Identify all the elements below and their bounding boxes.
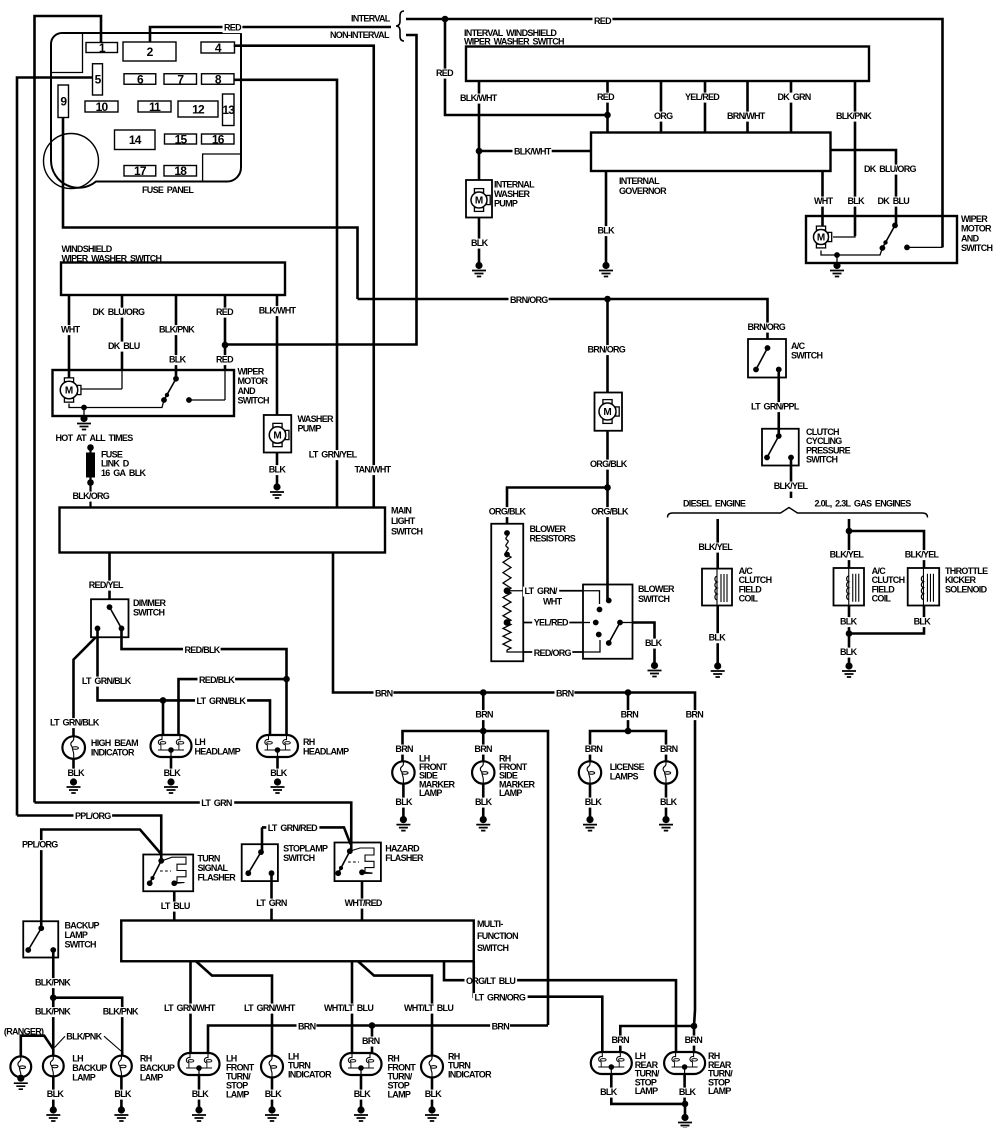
svg-text:BLK: BLK — [679, 1087, 697, 1097]
label YEL/RED tap — [532, 618, 569, 628]
svg-text:BRN: BRN — [362, 1036, 380, 1046]
label BLK/WHT — [459, 94, 498, 104]
label LT BLU — [159, 902, 191, 912]
ground LH front lamp — [195, 1106, 202, 1113]
ground diesel coil — [714, 662, 721, 669]
svg-text:DIMMER: DIMMER — [133, 598, 166, 608]
thin link RED to contact — [189, 399, 225, 401]
svg-text:BRN: BRN — [298, 1022, 316, 1032]
label RED/BLK lower — [198, 676, 236, 686]
wire BLK/PNK drop — [175, 295, 178, 379]
label BRN license right — [659, 745, 679, 755]
svg-text:LT GRN: LT GRN — [201, 798, 232, 808]
label ORG/BLK — [589, 460, 628, 470]
junction dot motor ground — [81, 405, 87, 411]
wire RED/BLK from dimmer — [122, 628, 287, 737]
svg-text:LAMP: LAMP — [635, 1086, 658, 1096]
turn signal flasher heater element — [160, 870, 171, 872]
svg-text:LIGHT: LIGHT — [391, 516, 416, 526]
svg-text:WHT/LT BLU: WHT/LT BLU — [324, 1003, 373, 1013]
wire BLK/YEL to engines brace — [790, 458, 793, 499]
blower resistor element — [504, 530, 510, 536]
svg-text:BRN: BRN — [395, 744, 413, 754]
svg-text:MAIN: MAIN — [391, 506, 411, 516]
wire marker tee — [403, 731, 549, 1025]
fuse 14 — [115, 130, 156, 150]
junction dot license tee — [625, 728, 632, 735]
svg-text:PPL/ORG: PPL/ORG — [22, 840, 58, 850]
junction dot marker tee — [480, 728, 487, 735]
label WHT — [813, 197, 835, 207]
fuse 11 — [138, 101, 171, 112]
ground ranger lamp — [17, 1075, 24, 1082]
svg-text:LT GRN/WHT: LT GRN/WHT — [244, 1003, 296, 1013]
svg-text:LT GRN/BLK: LT GRN/BLK — [82, 676, 132, 686]
wire LT GRN/RED feed — [261, 827, 264, 852]
ground blower switch — [651, 662, 658, 669]
junction dot RED/BLK — [283, 676, 290, 683]
svg-text:16 GA BLK: 16 GA BLK — [101, 468, 147, 478]
blower switch box — [583, 585, 633, 659]
fuse 9 — [58, 85, 69, 118]
label BLK gas ground lead — [839, 648, 858, 658]
wire BRN from main light switch — [333, 553, 695, 1027]
wire LT GRN/WHT to LH front turn lamp — [189, 961, 192, 1053]
wire LT GRN/ORG to LH rear lamp — [474, 961, 603, 1056]
svg-text:BRN/ORG: BRN/ORG — [510, 295, 548, 305]
svg-text:RED: RED — [597, 92, 615, 102]
label BRN RH marker — [473, 745, 493, 755]
label LT GRN/ORG — [473, 993, 528, 1003]
svg-text:BLK/YEL: BLK/YEL — [698, 542, 733, 552]
label BRN right drop — [684, 710, 704, 720]
svg-text:YEL/RED: YEL/RED — [685, 92, 720, 102]
svg-text:BLK: BLK — [709, 633, 727, 643]
wiper motor (left) — [64, 378, 73, 382]
fuse 16 — [202, 134, 235, 144]
A/C clutch field coil (gas) — [834, 568, 865, 606]
fuse 4 — [201, 42, 235, 53]
label PPL/ORG branch — [21, 840, 60, 850]
ground license right — [662, 816, 669, 823]
wire governor to DK BLU/ORG — [831, 150, 897, 216]
fuse 6 — [124, 74, 156, 85]
label BLK/PNK 3 — [101, 1007, 139, 1017]
svg-text:RED: RED — [436, 68, 454, 78]
svg-text:M: M — [273, 431, 281, 442]
svg-text:BLK/YEL: BLK/YEL — [830, 550, 865, 560]
wire WHT/LT BLU to RH turn indicator — [358, 961, 432, 1056]
wire BRN rear tee — [620, 1026, 694, 1056]
svg-text:RED/ORG: RED/ORG — [534, 648, 572, 658]
svg-text:BLK: BLK — [270, 768, 288, 778]
svg-text:BRN: BRN — [475, 710, 493, 720]
wire fuse 9 to BRN/ORG run — [63, 118, 358, 300]
label BLK diesel — [707, 633, 726, 643]
wire BLK washer pump ground lead — [478, 218, 481, 265]
wire BLK/PNK to RH backup — [53, 998, 122, 1056]
svg-text:BLK/ORG: BLK/ORG — [73, 491, 110, 501]
label BRN LH marker — [394, 745, 414, 755]
svg-text:M: M — [475, 196, 483, 207]
svg-text:BLK: BLK — [68, 768, 86, 778]
main light switch box — [60, 508, 386, 553]
ground RH front lamp — [357, 1106, 364, 1113]
svg-text:LT BLU: LT BLU — [161, 901, 190, 911]
ground RH headlamp — [274, 778, 281, 785]
svg-text:HAZARD: HAZARD — [385, 844, 420, 854]
svg-text:SWITCH: SWITCH — [791, 351, 822, 361]
svg-text:BLK: BLK — [475, 797, 493, 807]
svg-text:BRN: BRN — [686, 710, 704, 720]
svg-text:BLK: BLK — [600, 1087, 618, 1097]
svg-text:DK GRN: DK GRN — [778, 92, 811, 102]
svg-text:PUMP: PUMP — [494, 199, 518, 209]
ground LH backup — [50, 1106, 57, 1113]
svg-text:BLK: BLK — [395, 797, 413, 807]
wire BLK high beam — [72, 759, 75, 781]
svg-text:RED: RED — [216, 307, 234, 317]
label DK GRN — [776, 93, 812, 103]
ground high beam — [70, 778, 77, 785]
hazard flasher heater element — [348, 861, 359, 863]
thin link arm to ground bus — [69, 400, 164, 408]
svg-text:INDICATOR: INDICATOR — [288, 1070, 332, 1080]
svg-text:BRN: BRN — [556, 689, 574, 699]
junction dot BRN front — [369, 1022, 376, 1029]
fuse 8 — [202, 74, 235, 85]
wire BRN rear right drop — [693, 1026, 696, 1056]
label BRN/ORG ac switch — [746, 323, 786, 333]
label BLK LH headlamp — [162, 769, 181, 779]
label BLK LH marker — [394, 798, 413, 808]
wire WHT governor to wiper motor — [821, 171, 824, 228]
wire INTERVAL feed — [406, 19, 943, 247]
svg-text:SWITCH: SWITCH — [65, 940, 96, 950]
svg-text:16: 16 — [212, 132, 225, 146]
wire ORG/BLK below blower motor — [606, 431, 609, 601]
svg-text:SWITCH: SWITCH — [961, 243, 992, 253]
wire BLK diesel coil ground — [716, 606, 719, 665]
fuse 7 — [164, 74, 197, 85]
wire license tee — [590, 731, 666, 761]
svg-text:HEADLAMP: HEADLAMP — [303, 747, 349, 757]
wire fuse 1 to LT GRN left drop — [35, 16, 102, 803]
svg-text:BLK: BLK — [169, 355, 187, 365]
svg-text:INTERNAL: INTERNAL — [494, 180, 535, 190]
svg-text:WHT: WHT — [543, 597, 563, 607]
svg-text:LAMP: LAMP — [72, 1072, 95, 1082]
svg-text:MULTI-: MULTI- — [477, 919, 503, 929]
ground LH turn indicator — [268, 1106, 275, 1113]
label BRN LH rear — [610, 1036, 630, 1046]
svg-text:INDICATOR: INDICATOR — [91, 748, 135, 758]
svg-text:BRN/ORG: BRN/ORG — [588, 345, 626, 355]
svg-text:BLK: BLK — [598, 226, 616, 236]
label RED upper — [215, 308, 235, 318]
label BLK license right — [659, 798, 678, 808]
label BLK RH rear — [677, 1088, 696, 1098]
labels LT GRN/YEL TAN/WHT — [307, 450, 359, 460]
svg-text:BLK: BLK — [660, 797, 678, 807]
ground gas coils — [845, 662, 852, 669]
label DK BLU — [107, 342, 141, 352]
label LT GRN/WHT 2 — [243, 1004, 298, 1014]
wire gas BLK/YEL feeds — [848, 519, 851, 568]
ground license left — [586, 816, 593, 823]
svg-text:RED: RED — [216, 355, 234, 365]
svg-text:BLK: BLK — [164, 768, 182, 778]
svg-text:SWITCH: SWITCH — [133, 608, 164, 618]
svg-text:BRN: BRN — [660, 744, 678, 754]
label BLK/ORG — [71, 492, 110, 502]
wire RED drop — [224, 295, 227, 370]
label PPL/ORG on feed — [74, 812, 113, 822]
LH headlamp — [151, 735, 192, 757]
svg-text:BLK: BLK — [265, 1089, 283, 1099]
label BLK/WHT on tee wire — [513, 147, 552, 157]
wire LT GRN/BLK to high beam indicator — [74, 637, 96, 737]
junction dot BLK/WHT tee — [476, 148, 483, 155]
fuse panel corner notch — [51, 33, 83, 73]
wire WHT/RED — [361, 881, 364, 920]
junction dot rear ground — [682, 1101, 689, 1108]
svg-text:TURN: TURN — [198, 854, 220, 864]
hazard flasher box — [335, 843, 381, 882]
wire BLK kicker to junction — [849, 606, 924, 634]
svg-text:BLK/PNK: BLK/PNK — [159, 325, 195, 335]
ground RH marker — [480, 816, 487, 823]
junction dot interval/red — [442, 16, 449, 23]
svg-text:LT GRN/BLK: LT GRN/BLK — [197, 696, 247, 706]
LH front turn/stop lamp — [179, 1053, 220, 1075]
svg-text:BLK: BLK — [585, 797, 603, 807]
label BLK/WHT washer pump — [257, 306, 296, 316]
svg-text:2.0L, 2.3L GAS ENGINES: 2.0L, 2.3L GAS ENGINES — [815, 499, 912, 509]
svg-text:INDICATOR: INDICATOR — [448, 1070, 492, 1080]
RH turn indicator — [421, 1056, 443, 1078]
svg-text:LT GRN/YEL: LT GRN/YEL — [309, 450, 358, 460]
junction dot wiper motor ground — [834, 252, 840, 258]
svg-text:PPL/ORG: PPL/ORG — [75, 811, 111, 821]
wire diesel BLK/YEL — [716, 519, 719, 569]
svg-text:FUSE PANEL: FUSE PANEL — [142, 185, 194, 195]
svg-text:LAMP: LAMP — [419, 788, 442, 798]
ground RH turn indicator — [428, 1106, 435, 1113]
svg-text:BLK/WHT: BLK/WHT — [460, 93, 498, 103]
wiper motor (interval) — [816, 226, 825, 230]
high beam indicator lamp — [62, 736, 85, 759]
label LT GRN/BLK upper — [80, 677, 132, 687]
label RED governor drop — [596, 93, 616, 103]
brace interval/non-interval — [396, 11, 404, 41]
windshield wiper washer switch box — [61, 263, 285, 296]
svg-text:GOVERNOR: GOVERNOR — [619, 186, 667, 196]
wire BRN license drop — [627, 693, 630, 732]
wire fuse 4 TAN/WHT — [234, 46, 374, 508]
ranger backup lamp — [10, 1056, 31, 1077]
svg-text:SWITCH: SWITCH — [283, 853, 314, 863]
RH front side marker lamp — [472, 761, 494, 783]
svg-text:ORG/BLK: ORG/BLK — [591, 507, 629, 517]
LH front side marker lamp — [392, 761, 414, 783]
svg-text:LT GRN/BLK: LT GRN/BLK — [50, 718, 100, 728]
svg-text:AND: AND — [238, 386, 257, 396]
ground LH marker — [400, 816, 407, 823]
label RED/YEL — [87, 581, 124, 591]
label BRN front run 1 — [297, 1022, 317, 1032]
label LT GRN/BLK high beam — [49, 718, 101, 728]
svg-text:DK BLU/ORG: DK BLU/ORG — [93, 307, 145, 317]
wire BLK washer pump — [276, 453, 279, 486]
wire BLK RH headlamp — [276, 757, 279, 781]
wire fuse 5 to PPL/ORG left drop — [17, 78, 93, 816]
svg-text:BLK/WHT: BLK/WHT — [259, 306, 297, 316]
svg-text:COIL: COIL — [739, 594, 759, 604]
ground wiper motor (interval) — [833, 262, 840, 269]
wire BLK/WHT drop to washer pump — [276, 295, 279, 415]
wire RED branch down to BLK/WHT tee — [445, 19, 608, 115]
wire YEL/RED drop — [704, 81, 707, 133]
svg-text:HOT AT ALL TIMES: HOT AT ALL TIMES — [56, 433, 134, 443]
svg-text:BLK/PNK: BLK/PNK — [66, 1032, 102, 1042]
junction dot LT GRN/BLK — [160, 697, 167, 704]
svg-text:BRN: BRN — [621, 710, 639, 720]
washer pump box — [264, 415, 292, 453]
svg-text:15: 15 — [175, 132, 188, 146]
svg-text:SWITCH: SWITCH — [391, 527, 422, 537]
svg-text:COIL: COIL — [872, 594, 892, 604]
svg-text:LAMP: LAMP — [140, 1072, 163, 1082]
license lamp right — [655, 761, 677, 783]
tap YEL/RED — [523, 622, 583, 624]
svg-text:BLK: BLK — [269, 465, 287, 475]
label LT GRN/WHT 1 — [163, 1004, 218, 1014]
wiper switch contacts (left) — [173, 376, 179, 382]
washer pump motor — [273, 423, 282, 427]
wire LT GRN feed to hazard flasher — [35, 803, 352, 852]
wire BLK blower switch ground — [633, 623, 655, 665]
label BLK gas left — [839, 617, 858, 627]
svg-text:LT GRN/RED: LT GRN/RED — [268, 823, 318, 833]
wire BLK LH turn ind — [271, 1078, 274, 1109]
svg-text:10: 10 — [96, 100, 109, 114]
svg-text:BLK/WHT: BLK/WHT — [514, 147, 552, 157]
fuse panel outline — [51, 33, 241, 188]
svg-text:BLK: BLK — [47, 1089, 65, 1099]
label ORG — [653, 112, 674, 122]
label BLK RH headlamp — [269, 769, 288, 779]
wire BRN/ORG run — [358, 299, 768, 339]
wire WHT drop — [68, 295, 71, 381]
ground RH backup — [118, 1106, 125, 1113]
label LT GRN stoplamp — [255, 899, 289, 909]
label BLK/YEL gas right — [903, 550, 939, 560]
wire LT GRN/BLK dimmer to headlamps — [98, 628, 271, 737]
svg-text:WIPER: WIPER — [961, 214, 988, 224]
svg-text:RED: RED — [224, 23, 242, 33]
svg-text:M: M — [603, 407, 611, 418]
wire RED/BLK branch to LH headlamp — [179, 679, 287, 737]
label RED/ORG tap — [532, 649, 572, 659]
svg-text:BLK/PNK: BLK/PNK — [103, 1007, 139, 1017]
svg-text:INTERNAL: INTERNAL — [619, 176, 660, 186]
svg-text:LAMPS: LAMPS — [610, 772, 639, 782]
wire to rear ground — [684, 1104, 687, 1117]
fuse 5 — [93, 64, 103, 95]
label BLK/PNK 1 — [34, 978, 72, 988]
svg-text:WASHER: WASHER — [494, 189, 531, 199]
svg-text:RED/BLK: RED/BLK — [185, 645, 221, 655]
label BRN start — [374, 689, 394, 699]
svg-text:INTERVAL: INTERVAL — [351, 14, 391, 24]
label WHT/LT BLU 2 — [403, 1004, 456, 1014]
wire LT GRN/WHT to LH turn indicator — [196, 961, 272, 1056]
fuse 2 — [123, 42, 176, 61]
svg-text:BLK/PNK: BLK/PNK — [35, 978, 71, 988]
svg-text:STOPLAMP: STOPLAMP — [283, 844, 328, 854]
svg-text:M: M — [817, 233, 825, 244]
turn signal flasher box — [143, 855, 193, 892]
svg-text:DK BLU: DK BLU — [108, 341, 140, 351]
svg-text:LT GRN/: LT GRN/ — [525, 586, 558, 596]
svg-text:BRN: BRN — [612, 1035, 630, 1045]
svg-text:SWITCH: SWITCH — [238, 396, 269, 406]
wire fuse 8 LT GRN/YEL — [234, 80, 337, 508]
wire DK GRN drop — [790, 81, 793, 133]
svg-text:13: 13 — [222, 103, 235, 117]
label BRN/ORG on run — [509, 296, 549, 306]
ground wiper motor left — [80, 415, 87, 422]
svg-text:NON-INTERVAL: NON-INTERVAL — [330, 30, 390, 40]
wire DK BLU/ORG drop — [121, 295, 124, 370]
label WHT/RED — [343, 899, 383, 909]
label BRN RH front drop — [361, 1037, 381, 1047]
label BRN license left — [583, 745, 603, 755]
svg-text:BLK: BLK — [840, 617, 858, 627]
A/C clutch field coil (diesel) — [702, 569, 732, 606]
svg-text:LAMP: LAMP — [226, 1090, 249, 1100]
svg-text:ORG/BLK: ORG/BLK — [590, 459, 628, 469]
svg-text:14: 14 — [129, 133, 142, 147]
junction dot BRN markers — [480, 689, 487, 696]
svg-text:12: 12 — [192, 102, 205, 116]
svg-text:WIPER WASHER SWITCH: WIPER WASHER SWITCH — [464, 37, 564, 47]
label BLK license left — [583, 798, 602, 808]
RH front turn/stop lamp — [341, 1053, 382, 1075]
junction dot BRN rear — [691, 1023, 698, 1030]
wire ranger lamp tap — [21, 1036, 53, 1057]
label BLK/PNK — [835, 112, 873, 122]
wire ORG/LT BLU to RH rear lamp — [444, 961, 676, 1056]
label LT GRN on feed — [200, 799, 234, 809]
svg-text:DK BLU/ORG: DK BLU/ORG — [864, 164, 916, 174]
label ORG/LT BLU — [465, 977, 518, 987]
wire RED drop to governor — [606, 81, 609, 133]
fuse link D — [87, 444, 94, 451]
RH rear turn/stop lamp — [664, 1052, 705, 1074]
wire PPL/ORG feed to turn signal flasher — [17, 816, 161, 861]
label BLK LH front — [190, 1090, 209, 1100]
svg-text:SWITCH: SWITCH — [638, 594, 669, 604]
label ORG/BLK switch drop — [590, 507, 629, 517]
svg-text:WHT/LT BLU: WHT/LT BLU — [404, 1003, 453, 1013]
svg-text:BRN/ORG: BRN/ORG — [748, 322, 786, 332]
label BLK RH front — [352, 1090, 371, 1100]
backup lamp switch box — [23, 921, 58, 957]
LH rear turn/stop lamp — [591, 1052, 632, 1074]
junction dot BLK/PNK — [50, 994, 57, 1001]
